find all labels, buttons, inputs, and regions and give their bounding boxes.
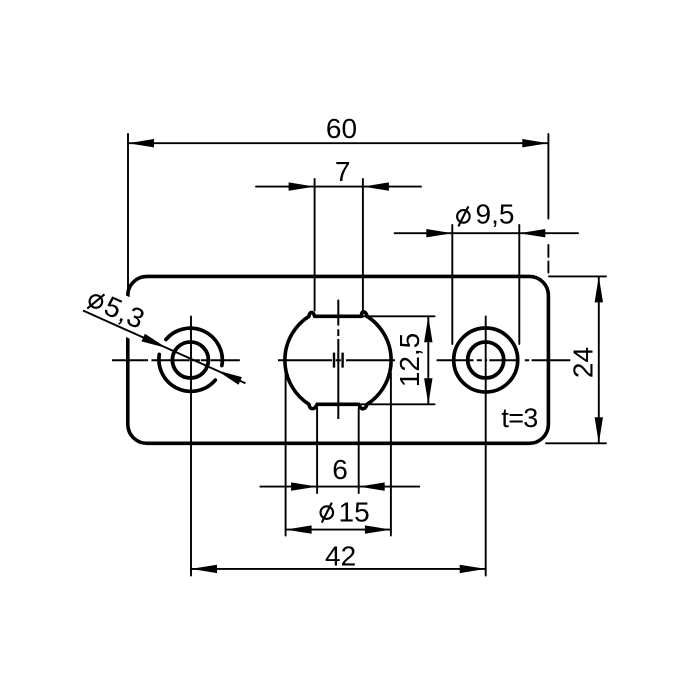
hole M: central double-D hole (dia 15 with flats) — [285, 312, 391, 409]
svg-text:9,5: 9,5 — [476, 199, 515, 230]
label 5.3 (rotated) — [84, 283, 149, 335]
label 9.5 with dia symbol — [457, 206, 470, 226]
dimension 24: dimension line — [598, 276, 600, 443]
dimension 60: dimension line — [128, 142, 548, 144]
arrow 24 bottom — [595, 417, 603, 443]
dimension 9.5: extension lines — [452, 225, 519, 344]
dimension 9.5: dimension line — [395, 232, 578, 234]
arrow 24 top — [595, 276, 603, 302]
arrow 15 left — [286, 525, 312, 533]
dimension 42: dimension line — [191, 568, 486, 570]
arrow 7 right — [363, 182, 389, 190]
arrow 12.5 top — [424, 316, 432, 342]
dimension 6: dimension line — [260, 486, 419, 488]
node D: central hole center tick marks — [334, 353, 343, 368]
arrow 6 right — [359, 482, 385, 490]
svg-text:t=3: t=3 — [501, 403, 537, 433]
arrow 9.5 right — [519, 229, 545, 237]
leader 5.3: arrow lower — [217, 370, 242, 384]
svg-text:7: 7 — [335, 156, 351, 187]
dimension 60: extension line right (with dashes) — [547, 134, 549, 273]
leader 5.3: white halo behind label — [75, 280, 153, 342]
svg-text:42: 42 — [325, 541, 356, 572]
plate outline (60x24 rounded rect) — [128, 276, 549, 443]
hole R2: right hole outer circle (9.5 dia) — [454, 328, 518, 392]
arrows — [128, 139, 603, 573]
node B: right hole vertical centerline / 42 extension — [485, 317, 487, 576]
leader 5.3: arrow upper — [142, 334, 168, 348]
node A: left hole vertical centerline / 42 extension — [190, 317, 192, 576]
dimension 15: dimension line — [286, 529, 391, 531]
arrow 42 right — [460, 565, 486, 573]
dimension 60: extension line left — [127, 134, 129, 298]
svg-text:6: 6 — [332, 454, 348, 485]
arrow 9.5 left — [426, 229, 452, 237]
svg-text:15: 15 — [339, 497, 370, 528]
node C: central hole vertical centerline — [337, 300, 339, 419]
leader 5.3: leader line — [83, 311, 246, 384]
dimension 12.5: extension lines — [362, 316, 435, 404]
arrow 42 left — [191, 565, 217, 573]
dimension 6: extension lines — [317, 408, 359, 493]
hole L1: left hole inner circle (5.3 dia) — [172, 342, 208, 378]
svg-text:12,5: 12,5 — [394, 333, 425, 388]
hole R1: right hole inner circle (5.3 dia) — [468, 342, 504, 378]
arrow 60 right — [522, 139, 548, 147]
arrow 60 left — [128, 139, 154, 147]
arrow 6 left — [291, 482, 317, 490]
dimension 12.5: dimension line — [427, 316, 429, 404]
svg-text:24: 24 — [568, 347, 599, 378]
dimension 7: extension lines — [315, 179, 363, 311]
arrow 15 right — [365, 525, 391, 533]
dimension 24: extension lines — [546, 276, 606, 443]
label 15 with dia symbol — [321, 503, 334, 523]
arrow 7 left — [289, 182, 315, 190]
hole L2: left hole outer circle arcs (9.5 dia, broken by leader) — [159, 328, 222, 391]
dimension 15: extension lines — [286, 373, 391, 536]
wire: main horizontal centerline y=360.3 — [112, 359, 570, 361]
dimension 7: dimension line — [256, 186, 421, 188]
arrow 12.5 bottom — [424, 378, 432, 404]
svg-text:60: 60 — [326, 113, 357, 144]
